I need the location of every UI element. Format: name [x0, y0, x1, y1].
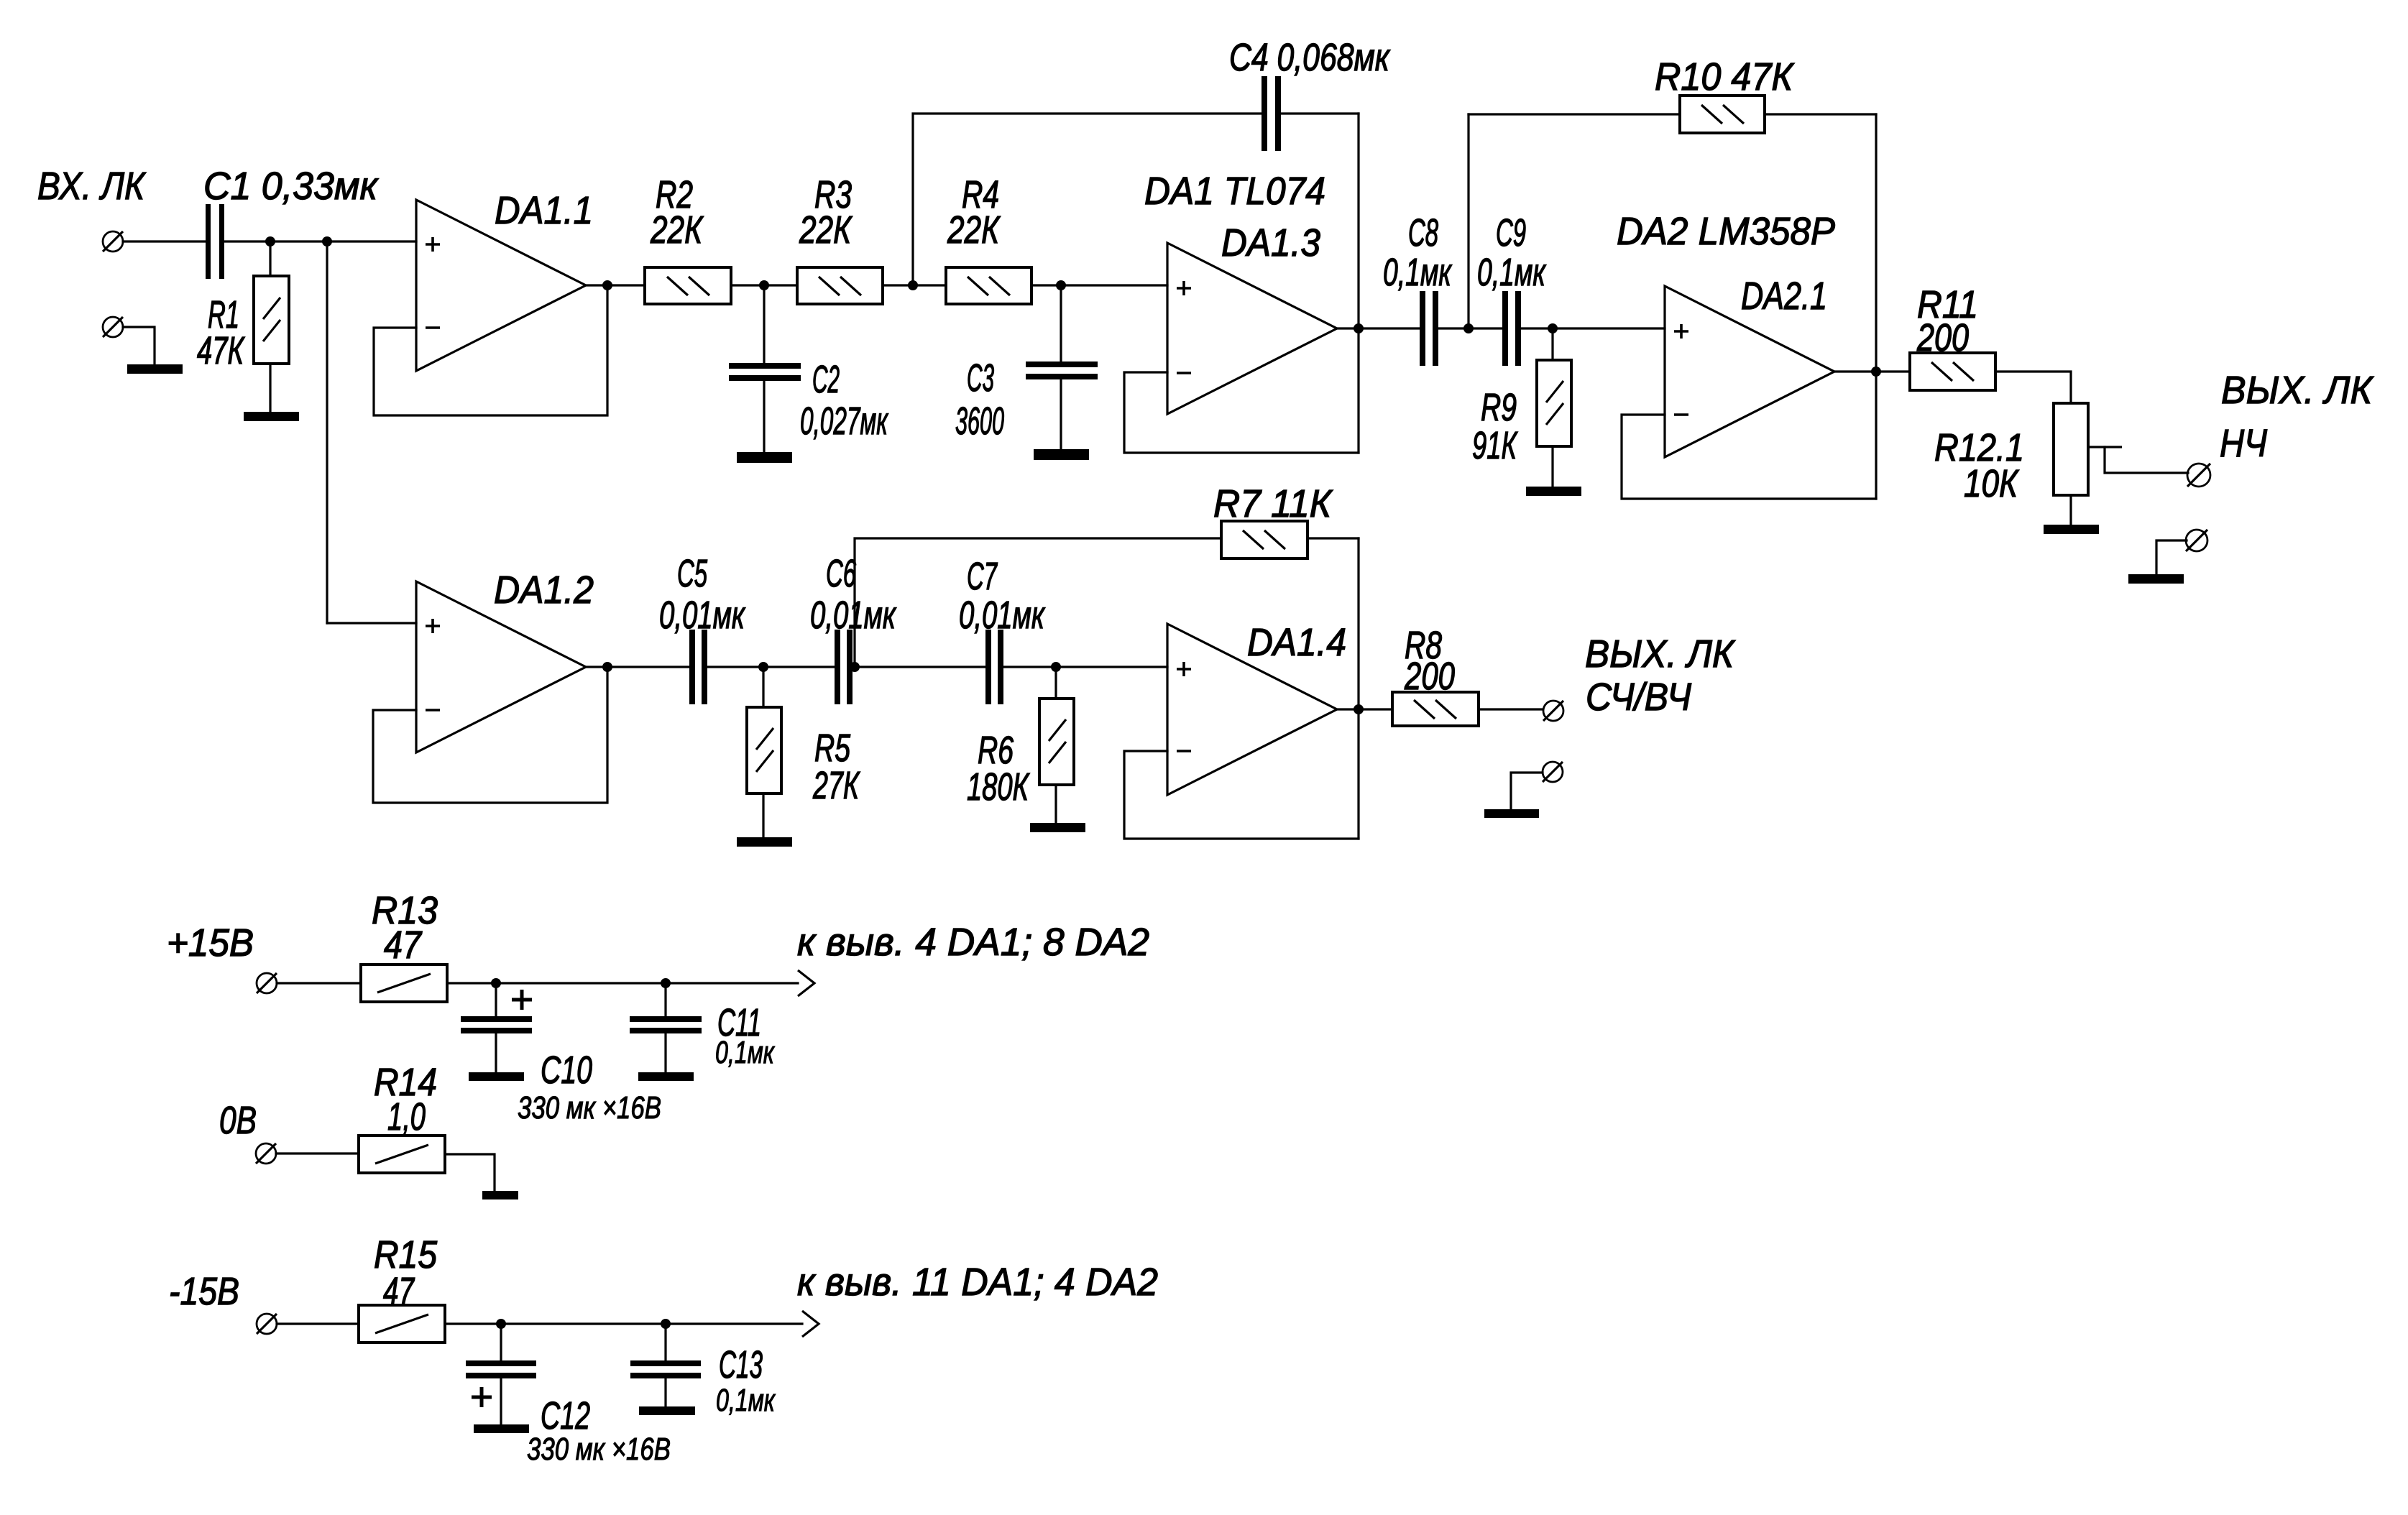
node junction DA1.2 branch: [322, 236, 332, 247]
svg-text:R7 11К: R7 11К: [1213, 482, 1333, 525]
svg-text:НЧ: НЧ: [2220, 422, 2268, 465]
node R7 feedback junction: [850, 662, 860, 672]
wire C8 to C9: [1438, 327, 1502, 329]
resistor R15: [359, 1305, 445, 1343]
wire DA2.1 output vertical: [1875, 114, 1877, 499]
wire junction to R1: [269, 241, 271, 276]
wire R14 to ground: [445, 1154, 495, 1191]
wire DA1.3 output: [1337, 327, 1419, 329]
resistor R10: [1680, 96, 1765, 133]
wire R8 to terminal: [1479, 708, 1543, 710]
wire C3 to ground: [1060, 379, 1062, 449]
resistor R8: [1392, 692, 1479, 726]
svg-text:330 мк ×16В: 330 мк ×16В: [527, 1432, 671, 1467]
wire DA1.2 output: [586, 666, 689, 668]
terminal 0В: [256, 1143, 276, 1164]
wire junction to R5: [762, 667, 764, 707]
wire DA1.3 output vertical: [1357, 114, 1359, 453]
capacitor C12: [466, 1360, 536, 1378]
svg-text:DA1.4: DA1.4: [1247, 621, 1346, 664]
node DA1.3 output: [1354, 323, 1364, 333]
wire junction to R6: [1054, 667, 1057, 699]
wire C7 to DA1.4: [1003, 666, 1167, 668]
wire junction to C11: [664, 983, 666, 1016]
svg-text:C10: C10: [541, 1049, 592, 1092]
node R6 junction: [1051, 662, 1061, 672]
wire R2 to R3: [731, 284, 797, 286]
wire R7 to output vertical: [1308, 537, 1359, 539]
terminal input signal: [103, 231, 123, 252]
svg-text:0,01мк: 0,01мк: [959, 594, 1046, 637]
resistor R13: [361, 964, 447, 1002]
terminal СЧ/ВЧ ground: [1543, 762, 1563, 782]
wire DA1.3 feedback: [1124, 372, 1359, 453]
wire +15В rail: [447, 982, 798, 984]
svg-text:C9: C9: [1496, 211, 1526, 254]
wire R10 feedback top: [1469, 113, 1680, 115]
wire НЧ ground: [2156, 540, 2187, 574]
wire R12.1 wiper to output: [2105, 447, 2188, 473]
svg-text:+15В: +15В: [167, 921, 254, 964]
capacitor C5: [689, 630, 707, 704]
ground C3: [1034, 449, 1089, 460]
svg-text:10К: 10К: [1964, 462, 2020, 505]
terminal +15В: [257, 973, 277, 993]
resistor R2: [645, 267, 731, 304]
svg-text:0,1мк: 0,1мк: [1477, 251, 1547, 294]
op-amp DA1.3: [1167, 243, 1337, 414]
capacitor C6: [835, 630, 853, 704]
op-amp DA2.1: [1665, 286, 1834, 457]
svg-text:3600: 3600: [955, 400, 1004, 443]
svg-text:C13: C13: [719, 1343, 763, 1386]
resistor R11: [1910, 353, 1995, 390]
wire C1 to DA1.1: [224, 240, 416, 242]
svg-text:47К: 47К: [197, 329, 245, 372]
svg-text:200: 200: [1916, 316, 1969, 359]
wire C5 to C6: [707, 666, 834, 668]
resistor R6: [1039, 699, 1074, 785]
resistor R14: [359, 1136, 445, 1173]
svg-text:к выв. 4 DA1; 8 DA2: к выв. 4 DA1; 8 DA2: [797, 921, 1149, 964]
wire junction to R9: [1551, 328, 1553, 360]
wire junction to C3: [1060, 285, 1062, 362]
resistor R9: [1537, 360, 1571, 446]
ground СЧ/ВЧ: [1484, 809, 1539, 818]
ground C10: [469, 1072, 524, 1081]
svg-text:180К: 180К: [967, 765, 1030, 809]
arrow -15В rail: [802, 1311, 819, 1337]
svg-text:C8: C8: [1408, 211, 1438, 254]
wire DA1.4 feedback: [1124, 751, 1359, 839]
svg-text:C7: C7: [967, 555, 998, 598]
svg-text:C5: C5: [677, 552, 708, 595]
op-amp DA1.1: [416, 200, 586, 371]
svg-text:R10 47К: R10 47К: [1655, 55, 1795, 98]
wire junction to C12: [500, 1324, 502, 1360]
svg-text:0В: 0В: [219, 1099, 257, 1142]
svg-text:ВХ. ЛК: ВХ. ЛК: [37, 165, 147, 208]
svg-text:C4 0,068мк: C4 0,068мк: [1229, 36, 1391, 79]
wire R7 feedback up: [855, 538, 1221, 667]
wire DA1.4 output vertical: [1357, 538, 1359, 839]
resistor R1: [254, 276, 289, 364]
node DA2.1 output: [1871, 367, 1881, 377]
capacitor C10 polarity: [512, 990, 532, 1010]
wire C4 feedback left: [913, 114, 1261, 285]
ground R1: [244, 412, 299, 421]
node C4 feedback junction: [908, 280, 918, 290]
svg-text:СЧ/ВЧ: СЧ/ВЧ: [1586, 676, 1692, 719]
svg-text:DA2 LM358P: DA2 LM358P: [1617, 210, 1835, 253]
node DA1.4 output: [1354, 704, 1364, 714]
wire R6 to ground: [1054, 785, 1057, 823]
ground C11: [638, 1072, 694, 1081]
wire R4 to DA1.3: [1031, 284, 1167, 286]
svg-text:C6: C6: [826, 552, 857, 595]
node R9 junction: [1548, 323, 1558, 333]
wire -15В to R15: [277, 1322, 359, 1325]
capacitor C10: [461, 1016, 532, 1033]
wire C9 to DA2.1: [1521, 327, 1665, 329]
ground R6: [1030, 823, 1085, 832]
capacitor C1: [206, 204, 224, 279]
svg-text:-15В: -15В: [169, 1270, 239, 1313]
terminal НЧ output: [2187, 464, 2210, 487]
capacitor C4: [1262, 76, 1281, 151]
svg-text:C3: C3: [967, 356, 994, 400]
node R10 feedback junction: [1463, 323, 1474, 333]
svg-text:0,1мк: 0,1мк: [716, 1383, 776, 1418]
wire branch down to DA1.2: [326, 241, 328, 623]
ground R5: [737, 837, 792, 847]
wire input to C1: [123, 240, 205, 242]
wire DA2.1 output: [1834, 370, 1910, 372]
wire 0В to R14: [276, 1152, 359, 1154]
wire R12.1 to ground: [2069, 495, 2072, 525]
wire C6 to C7: [853, 666, 985, 668]
wire DA1.1 output: [586, 284, 645, 286]
svg-text:C12: C12: [541, 1394, 590, 1437]
terminal НЧ ground: [2186, 530, 2207, 551]
terminal -15В: [257, 1314, 277, 1334]
svg-text:0,1мк: 0,1мк: [715, 1035, 776, 1070]
node R5 junction: [758, 662, 768, 672]
svg-text:0,01мк: 0,01мк: [810, 594, 897, 637]
wire R9 to ground: [1551, 446, 1553, 487]
svg-text:1,0: 1,0: [387, 1095, 426, 1138]
ground C12: [474, 1424, 529, 1433]
svg-text:DA1 TL074: DA1 TL074: [1144, 170, 1325, 213]
capacitor C3: [1026, 362, 1098, 379]
wire -15В rail: [445, 1322, 802, 1325]
wire R5 to ground: [762, 793, 764, 837]
svg-text:C2: C2: [812, 358, 840, 401]
wire C2 to ground: [763, 381, 765, 452]
svg-text:DA2.1: DA2.1: [1741, 275, 1827, 318]
wire C10 to ground: [495, 1033, 497, 1072]
wire R10 feedback up: [1467, 114, 1469, 328]
ground R9: [1526, 487, 1581, 496]
capacitor C2: [729, 363, 801, 381]
wire C11 to ground: [664, 1033, 666, 1072]
wire DA1.1 feedback: [374, 285, 607, 415]
wire R3 to R4: [883, 284, 946, 286]
op-amp DA1.2: [416, 581, 586, 752]
wire C12 to ground: [500, 1378, 502, 1424]
resistor R5: [747, 707, 781, 793]
node C13 junction: [661, 1319, 671, 1329]
node C2 junction: [759, 280, 769, 290]
ground НЧ: [2128, 574, 2184, 584]
svg-text:0,1мк: 0,1мк: [1383, 251, 1453, 294]
node C10 junction: [491, 978, 501, 988]
svg-text:22К: 22К: [650, 208, 704, 252]
svg-text:330 мк ×16В: 330 мк ×16В: [518, 1090, 661, 1125]
svg-text:22К: 22К: [947, 208, 1001, 252]
capacitor C12 polarity: [472, 1387, 492, 1407]
wire junction to C2: [763, 285, 765, 363]
terminal СЧ/ВЧ output: [1543, 701, 1563, 721]
wire C13 to ground: [664, 1378, 666, 1406]
wire junction to C13: [664, 1324, 666, 1360]
wire R10 to output vertical: [1765, 113, 1876, 115]
node C12 junction: [496, 1319, 506, 1329]
ground R14: [482, 1191, 518, 1199]
wire DA1.4 output: [1337, 708, 1392, 710]
svg-text:0,027мк: 0,027мк: [800, 400, 889, 443]
wire DA1.2 feedback: [373, 667, 607, 803]
svg-text:0,01мк: 0,01мк: [659, 594, 746, 637]
node DA1.2 output: [602, 662, 612, 672]
svg-text:91К: 91К: [1472, 424, 1518, 467]
node junction R1: [265, 236, 275, 247]
ground C2: [737, 452, 792, 463]
node C3 junction: [1056, 280, 1066, 290]
resistor R4: [946, 267, 1031, 304]
capacitor C11: [630, 1016, 702, 1033]
node C11 junction: [661, 978, 671, 988]
wire +15В to R13: [277, 982, 361, 984]
svg-text:22К: 22К: [799, 208, 853, 252]
capacitor C7: [985, 630, 1003, 704]
ground C13: [639, 1406, 695, 1415]
svg-text:R5: R5: [814, 727, 851, 770]
ground R12.1: [2044, 525, 2099, 534]
ground input: [127, 364, 183, 374]
svg-text:ВЫХ. ЛК: ВЫХ. ЛК: [1585, 632, 1736, 676]
svg-text:к выв. 11 DA1; 4 DA2: к выв. 11 DA1; 4 DA2: [797, 1261, 1158, 1304]
svg-text:ВЫХ. ЛК: ВЫХ. ЛК: [2221, 369, 2374, 412]
svg-text:27К: 27К: [812, 764, 860, 807]
terminal input ground: [103, 317, 123, 337]
svg-text:200: 200: [1404, 655, 1455, 698]
svg-text:DA1.2: DA1.2: [494, 568, 594, 612]
wire R11 to R12.1: [1995, 372, 2071, 403]
op-amp DA1.4: [1167, 624, 1337, 795]
svg-text:DA1.3: DA1.3: [1221, 221, 1320, 264]
svg-text:47: 47: [384, 924, 423, 967]
resistor R7: [1221, 521, 1308, 558]
wire to DA1.2 plus input: [327, 622, 416, 624]
potentiometer R12.1: [2054, 403, 2122, 495]
capacitor C13: [630, 1360, 701, 1378]
capacitor C8: [1420, 291, 1438, 366]
wire C4 to output vertical: [1281, 112, 1359, 114]
capacitor C9: [1502, 291, 1521, 366]
node DA1.1 output: [602, 280, 612, 290]
resistor R3: [797, 267, 883, 304]
wire R1 to ground: [269, 364, 271, 412]
wire DA2.1 feedback: [1622, 415, 1876, 499]
svg-text:R9: R9: [1481, 386, 1517, 429]
svg-text:DA1.1: DA1.1: [495, 189, 593, 232]
wire junction to C10: [495, 983, 497, 1016]
wire СЧ/ВЧ ground: [1511, 773, 1543, 809]
wire input ground: [123, 327, 155, 364]
svg-text:C1 0,33мк: C1 0,33мк: [203, 165, 379, 208]
arrow +15В rail: [798, 970, 814, 996]
